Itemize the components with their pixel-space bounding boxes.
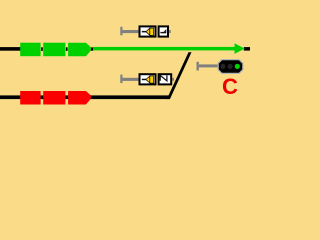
svg-text:C: C bbox=[222, 74, 238, 99]
